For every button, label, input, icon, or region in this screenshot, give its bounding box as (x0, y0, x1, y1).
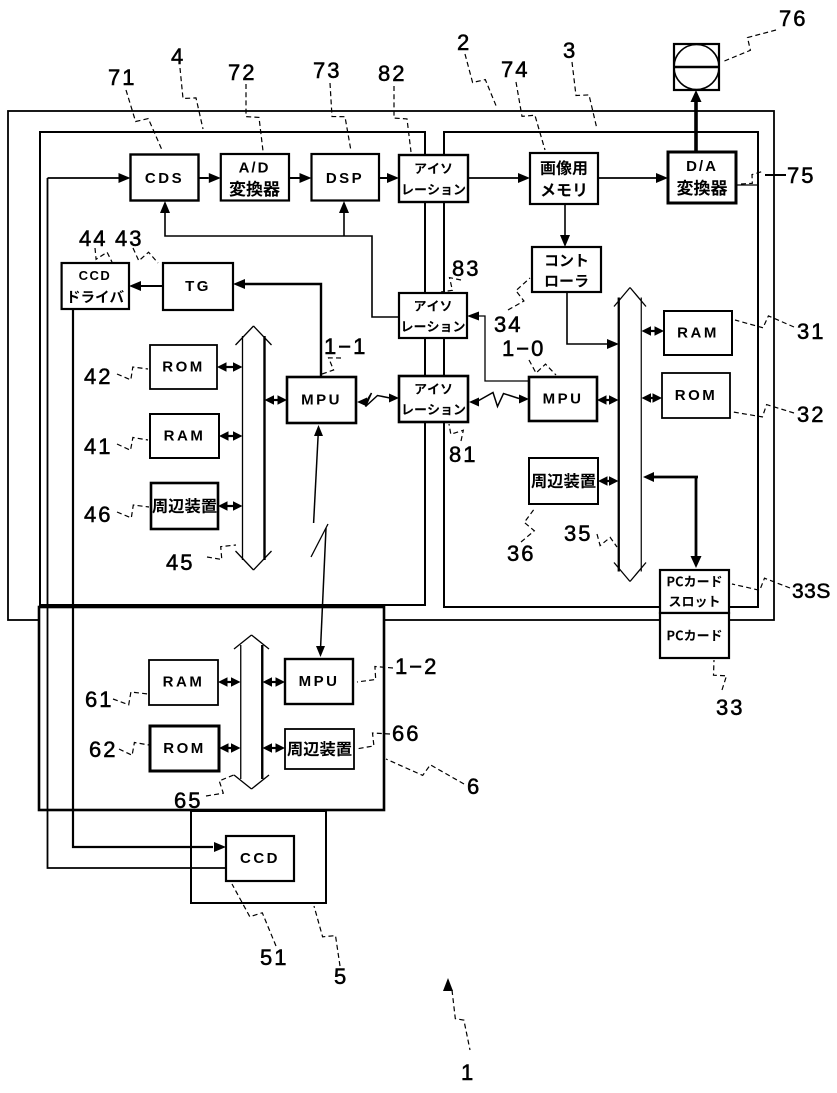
svg-text:MPU: MPU (299, 673, 340, 690)
wire RAM 61 to bus 65 (226, 681, 234, 683)
wire MPU 1-1 to TG (244, 284, 321, 377)
wire CDS to A/D (199, 177, 209, 179)
svg-text:43: 43 (115, 226, 143, 251)
wire bus 65 to peripheral 66 (270, 747, 278, 749)
arrowhead into CCD (214, 842, 226, 852)
box MPU 1-1 (287, 377, 356, 423)
svg-text:33S: 33S (792, 580, 831, 603)
wire ROM 42 to bus 45 (225, 366, 236, 368)
svg-text:46: 46 (84, 502, 112, 527)
svg-text:32: 32 (797, 402, 825, 427)
svg-text:DSP: DSP (326, 170, 364, 187)
svg-text:3: 3 (563, 38, 577, 63)
svg-text:1−2: 1−2 (395, 654, 438, 679)
box image memory 74 (530, 153, 598, 204)
label 1 arrow leader (443, 978, 453, 991)
wire controller 34 to bus 35 (567, 292, 608, 344)
bus 65 bottom section (240, 645, 242, 779)
svg-text:34: 34 (494, 312, 522, 337)
PC card text (668, 630, 722, 641)
wire bus 35 to ROM 32 (649, 397, 655, 399)
box PC card slot 33S (660, 570, 729, 613)
svg-text:83: 83 (452, 256, 480, 281)
svg-text:RAM: RAM (163, 674, 205, 691)
wire bus 35 to PC card slot (bold) (695, 477, 698, 557)
controller text (546, 254, 587, 267)
wire image memory to D/A (598, 177, 656, 179)
box A/D converter 72 (221, 154, 289, 201)
svg-text:82: 82 (378, 61, 406, 86)
svg-text:RAM: RAM (164, 428, 206, 445)
display device 76 square (674, 44, 719, 90)
svg-text:CCD: CCD (79, 268, 112, 283)
isolation 83 text (415, 300, 451, 311)
peripheral 46 kanji (152, 498, 216, 513)
svg-text:62: 62 (89, 737, 117, 762)
wire peripheral 46 to bus 45 (226, 505, 236, 507)
svg-text:36: 36 (507, 541, 535, 566)
svg-text:ROM: ROM (163, 740, 206, 757)
svg-text:41: 41 (84, 434, 112, 459)
wire bus 35 to RAM 31 (649, 330, 657, 332)
box D/A converter 75 (668, 152, 736, 203)
svg-text:2: 2 (457, 30, 471, 55)
wire CCD output to CDS (left vertical) (48, 178, 227, 868)
svg-text:65: 65 (174, 788, 202, 813)
wire bus 65 to MPU 1-2 (270, 681, 278, 683)
svg-text:CCD: CCD (240, 850, 280, 867)
svg-text:MPU: MPU (543, 391, 584, 408)
svg-text:A/D: A/D (239, 160, 271, 177)
PC card slot text (668, 576, 722, 587)
svg-text:31: 31 (797, 319, 825, 344)
wire bus 45 to MPU 1-1 (272, 399, 280, 401)
wire MPU 1-0 to isolation 83 (478, 316, 529, 381)
peripheral 66 kanji (287, 741, 351, 756)
box MPU 1-0 (529, 377, 597, 421)
svg-text:44: 44 (79, 226, 107, 251)
box peripheral 66 (285, 729, 354, 769)
box controller 34 (532, 247, 601, 292)
box isolation 83 (399, 293, 467, 338)
zigzag link MPU 1-1 to MPU 1-2 (vertical) (314, 425, 323, 436)
wire TG to CCD driver (141, 285, 163, 287)
svg-text:MPU: MPU (301, 392, 342, 409)
wire RAM 41 to bus 45 (227, 435, 236, 437)
wire CCD driver to CCD (left vertical) (73, 309, 213, 847)
svg-text:33: 33 (716, 695, 744, 720)
svg-text:45: 45 (166, 550, 194, 575)
wire into CDS from CCD (48, 177, 119, 179)
box TG 43 (163, 263, 233, 310)
display device 76 middle line (674, 66, 719, 69)
svg-text:D/A: D/A (686, 158, 718, 175)
svg-text:72: 72 (228, 60, 256, 85)
svg-text:61: 61 (85, 687, 113, 712)
svg-text:75: 75 (787, 163, 815, 188)
zigzag link isolation 81 to MPU 1-0 (469, 398, 479, 407)
bus 35 right section (618, 298, 620, 572)
wire D/A label lead 75 (736, 184, 757, 186)
svg-text:76: 76 (779, 6, 807, 31)
box PC card 33 (660, 613, 729, 658)
display device 76 circle (674, 45, 719, 90)
svg-text:CDS: CDS (145, 170, 184, 187)
wire timing from isolation 83 to CDS and DSP (165, 212, 399, 317)
left section frame 4 (40, 132, 425, 605)
wire D/A to display 76 (bold) (694, 100, 698, 152)
peripheral 36 kanji (531, 473, 595, 488)
wire DSP to isolation 82 (379, 177, 387, 179)
right section frame 3 (444, 132, 758, 607)
svg-text:1: 1 (461, 1060, 475, 1085)
box CDS 71 (131, 155, 199, 201)
box RAM 61 (149, 660, 218, 705)
box isolation 81 (399, 376, 468, 422)
svg-text:1−1: 1−1 (324, 334, 367, 359)
svg-text:42: 42 (84, 364, 112, 389)
svg-text:81: 81 (449, 442, 477, 467)
svg-text:ROM: ROM (675, 387, 718, 404)
svg-text:35: 35 (564, 521, 592, 546)
bottom controller frame 6 (39, 607, 384, 810)
wire MPU 1-0 to bus 35 (605, 399, 612, 401)
box ROM 62 (150, 726, 219, 771)
svg-text:5: 5 (334, 964, 348, 989)
D/A converter kanji (677, 180, 727, 196)
wire peripheral 36 to bus 35 (606, 480, 612, 482)
outer system frame 2 (8, 111, 774, 620)
box MPU 1-2 (285, 659, 353, 704)
box peripheral 36 (529, 458, 598, 504)
svg-text:73: 73 (313, 58, 341, 83)
A/D converter kanji (230, 181, 280, 197)
box DSP 73 (312, 154, 380, 201)
svg-text:RAM: RAM (677, 325, 719, 342)
wire ROM 62 to bus 65 (227, 747, 234, 749)
svg-text:51: 51 (260, 945, 288, 970)
box RAM 31 (664, 311, 732, 355)
box CCD 51 (226, 836, 294, 881)
svg-text:4: 4 (171, 44, 185, 69)
svg-text:6: 6 (467, 774, 481, 799)
svg-text:71: 71 (108, 65, 136, 90)
wire isolation 82 to image memory (468, 177, 518, 179)
wire A/D to DSP (289, 177, 300, 179)
box ROM 42 (150, 345, 217, 389)
image memory text (541, 160, 587, 175)
isolation 81 text (416, 383, 452, 394)
isolation 82 text (416, 163, 452, 174)
svg-text:ROM: ROM (162, 359, 205, 376)
box isolation 82 (399, 155, 468, 202)
svg-text:TG: TG (185, 278, 211, 295)
wire image memory to controller 34 (564, 204, 566, 235)
zigzag link MPU 1-1 to isolation 81 (357, 398, 367, 407)
svg-text:1−0: 1−0 (502, 336, 545, 361)
svg-text:74: 74 (501, 57, 529, 82)
svg-text:66: 66 (392, 721, 420, 746)
box CCD driver 44 (62, 263, 129, 309)
CCD unit frame 5 (191, 811, 326, 903)
box peripheral 46 (151, 483, 218, 529)
box RAM 41 (150, 414, 219, 458)
CCD driver kana (70, 290, 124, 303)
branch up to DSP (343, 212, 345, 236)
box ROM 32 (662, 373, 730, 418)
bus 45 left section (242, 336, 244, 560)
